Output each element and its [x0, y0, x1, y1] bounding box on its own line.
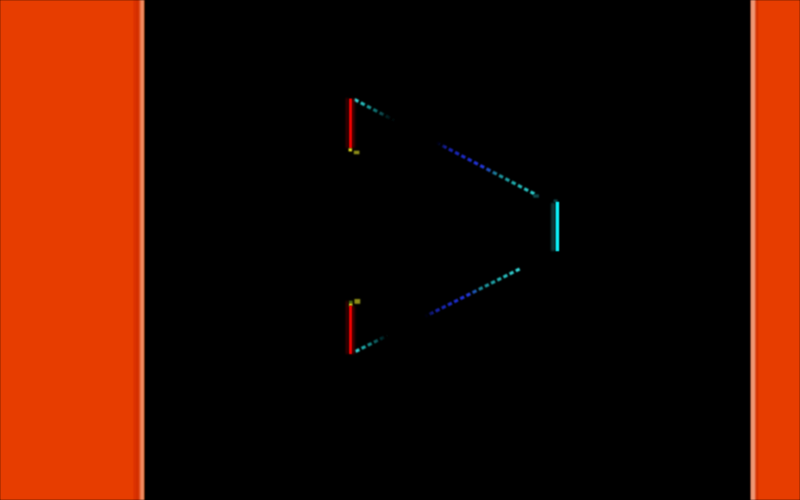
right wall — [750, 0, 800, 500]
lower red paddle — [349, 306, 352, 354]
ball trail upper — [355, 100, 537, 196]
cyan paddle dark cap — [554, 199, 558, 202]
cyan paddle — [556, 202, 559, 251]
lower red paddle ghost — [346, 301, 348, 354]
upper red paddle ghost — [346, 98, 348, 148]
lower ball yellow olive cap — [349, 301, 353, 304]
ball trail lower — [356, 269, 521, 352]
upper red paddle halo — [349, 99, 355, 148]
trail A faint tail — [533, 194, 539, 197]
left wall — [0, 0, 145, 500]
upper ball yellow echo — [354, 151, 360, 155]
upper red paddle — [349, 99, 352, 148]
lower ball yellow echo — [354, 299, 360, 304]
upper ball yellow at paddle foot — [349, 148, 352, 151]
cyan paddle left glow — [551, 203, 556, 251]
lower red paddle halo — [349, 306, 355, 354]
lower ball yellow at paddle head — [349, 304, 352, 307]
